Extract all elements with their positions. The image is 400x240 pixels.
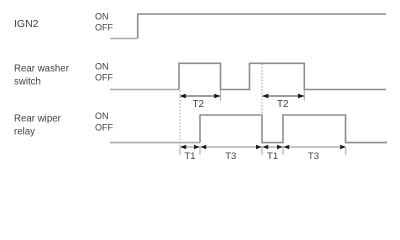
- svg-text:T1: T1: [267, 151, 278, 162]
- svg-text:OFF: OFF: [95, 23, 113, 33]
- svg-text:Rear wiper: Rear wiper: [14, 114, 62, 125]
- svg-text:OFF: OFF: [95, 73, 113, 83]
- svg-text:relay: relay: [14, 127, 35, 138]
- svg-text:T3: T3: [308, 151, 319, 162]
- svg-text:T1: T1: [184, 151, 195, 162]
- svg-text:ON: ON: [95, 11, 109, 21]
- svg-text:ON: ON: [95, 111, 109, 121]
- svg-text:IGN2: IGN2: [14, 18, 39, 30]
- svg-text:T2: T2: [277, 99, 289, 110]
- svg-text:switch: switch: [14, 77, 41, 88]
- svg-text:Rear washer: Rear washer: [14, 64, 70, 75]
- svg-text:OFF: OFF: [95, 123, 113, 133]
- svg-text:T2: T2: [192, 99, 204, 110]
- svg-text:T3: T3: [225, 151, 236, 162]
- svg-text:ON: ON: [95, 61, 109, 71]
